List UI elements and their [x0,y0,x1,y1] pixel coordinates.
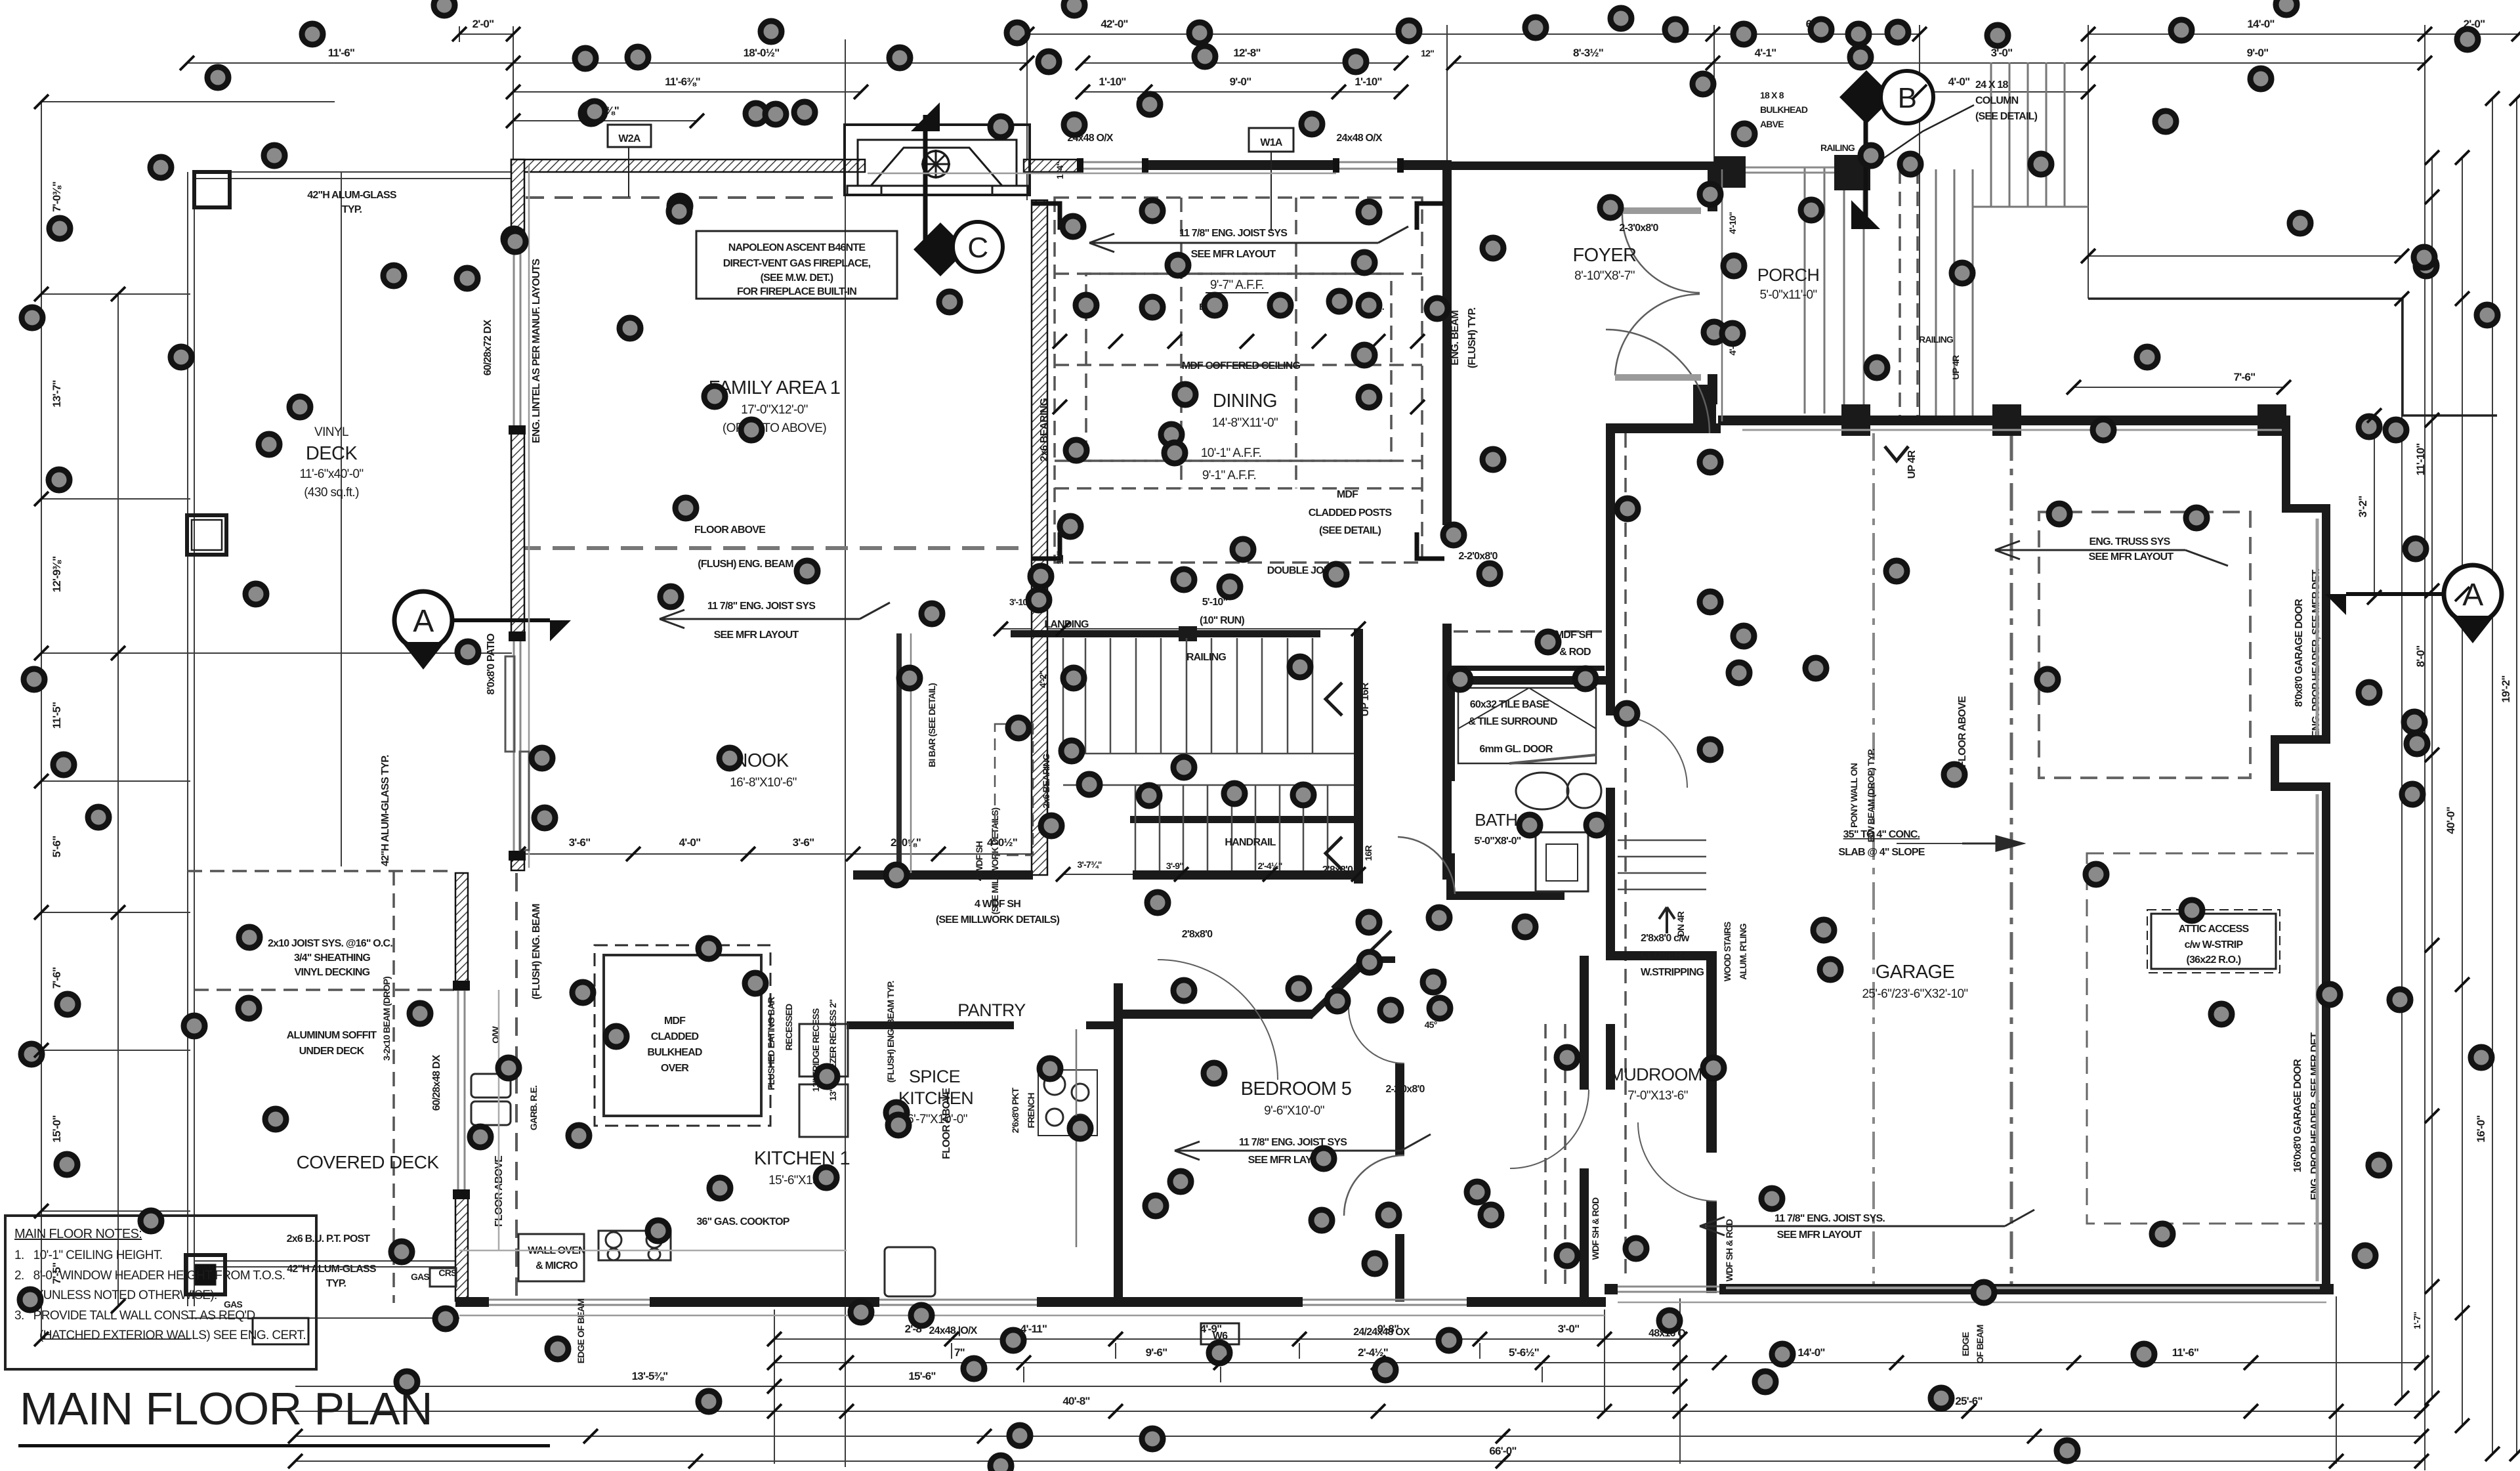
svg-text:(SEE MILLWORK DETAILS): (SEE MILLWORK DETAILS) [936,914,1060,926]
svg-text:2'8x8'0: 2'8x8'0 [1322,864,1353,876]
svg-text:PONY WALL ON: PONY WALL ON [1849,763,1859,828]
svg-text:ENG. BEAM: ENG. BEAM [1450,310,1461,366]
svg-text:3'-6": 3'-6" [569,836,591,849]
svg-text:GARAGE: GARAGE [1876,962,1955,983]
svg-text:CRS: CRS [438,1268,457,1278]
svg-text:7": 7" [954,1346,965,1359]
svg-text:24x48 |O/X: 24x48 |O/X [929,1325,978,1336]
svg-text:42"H ALUM-GLASS TYP.: 42"H ALUM-GLASS TYP. [380,755,391,866]
svg-text:UP 16R: UP 16R [1360,682,1371,716]
svg-text:4'-0": 4'-0" [1948,75,1970,88]
svg-text:5'-0"X8'-0": 5'-0"X8'-0" [1475,836,1521,847]
svg-text:3. PROVIDE TALL WALL CONST.: 3. PROVIDE TALL WALL CONST. AS REQ'D [14,1309,255,1323]
svg-text:5'-0"x11'-0": 5'-0"x11'-0" [1759,288,1816,302]
svg-text:4'-1": 4'-1" [1755,47,1776,59]
svg-text:42"H ALUM-GLASS: 42"H ALUM-GLASS [287,1264,377,1275]
svg-text:16'-8"X10'-6": 16'-8"X10'-6" [730,776,797,790]
svg-text:DIRECT-VENT GAS FIREPLACE,: DIRECT-VENT GAS FIREPLACE, [723,258,871,269]
svg-text:2'-0⅝": 2'-0⅝" [891,836,921,849]
svg-text:40'-0": 40'-0" [2445,807,2457,834]
svg-text:COLUMN: COLUMN [1975,95,2019,106]
svg-text:3'-2": 3'-2" [2357,496,2369,518]
svg-text:12'-8": 12'-8" [1233,47,1260,59]
svg-text:MAIN FLOOR NOTES:: MAIN FLOOR NOTES: [14,1227,142,1241]
svg-text:8'-10"X8'-7": 8'-10"X8'-7" [1574,269,1635,283]
svg-text:(FLUSH) TYP.: (FLUSH) TYP. [1467,307,1478,368]
svg-text:13'-7": 13'-7" [51,380,63,407]
svg-text:40'-8": 40'-8" [1062,1395,1089,1407]
svg-text:SEE MFR LAYOUT: SEE MFR LAYOUT [714,629,799,641]
svg-text:FLOOR ABOVE: FLOOR ABOVE [694,524,766,536]
svg-text:NAPOLEON ASCENT B46NTE: NAPOLEON ASCENT B46NTE [728,242,866,253]
svg-text:HANDRAIL: HANDRAIL [1225,837,1276,848]
svg-text:35" TO 4" CONC.: 35" TO 4" CONC. [1843,829,1920,840]
svg-text:W1A: W1A [1260,137,1282,148]
svg-text:11 7/8" ENG. JOIST SYS: 11 7/8" ENG. JOIST SYS [707,601,816,612]
svg-text:UNDER DECK: UNDER DECK [299,1046,365,1057]
svg-text:11'-6": 11'-6" [328,47,354,59]
svg-text:(FLUSH) ENG. BEAM TYP.: (FLUSH) ENG. BEAM TYP. [885,981,896,1083]
svg-text:GAS: GAS [411,1271,429,1282]
svg-text:ENG. LINTEL AS PER MANUF. LAYO: ENG. LINTEL AS PER MANUF. LAYOUTS [531,259,542,444]
svg-text:14'-0": 14'-0" [2247,18,2274,30]
svg-text:TYP.: TYP. [342,204,362,215]
svg-text:DN 4R: DN 4R [1675,911,1686,937]
svg-text:(430 sq.ft.): (430 sq.ft.) [304,486,359,500]
svg-text:2x6 BEARING: 2x6 BEARING [1041,754,1051,809]
svg-text:ALUM. R'LING: ALUM. R'LING [1738,923,1748,979]
svg-text:EDGE: EDGE [1960,1332,1971,1356]
svg-text:8'-0": 8'-0" [2414,646,2427,668]
svg-text:14'-8"X11'-0": 14'-8"X11'-0" [1212,416,1278,430]
svg-text:E/W BEAM (DROP) TYP.: E/W BEAM (DROP) TYP. [1866,749,1876,842]
svg-text:A: A [413,604,434,639]
svg-text:18'-0½": 18'-0½" [744,47,780,59]
svg-text:2x10 JOIST SYS. @16" O.C.: 2x10 JOIST SYS. @16" O.C. [268,938,392,949]
svg-text:17'-0"X12'-0": 17'-0"X12'-0" [741,403,808,417]
svg-text:FOYER: FOYER [1573,245,1637,266]
svg-text:9'-6"X10'-0": 9'-6"X10'-0" [1264,1104,1324,1118]
svg-text:6mm GL. DOOR: 6mm GL. DOOR [1479,744,1553,755]
svg-text:11'-10": 11'-10" [2414,443,2427,475]
svg-text:SLAB @ 4" SLOPE: SLAB @ 4" SLOPE [1838,847,1925,858]
svg-text:4'-0½": 4'-0½" [987,836,1017,849]
svg-text:ATTIC ACCESS: ATTIC ACCESS [2179,924,2250,935]
svg-text:WDF SH & ROD: WDF SH & ROD [1724,1219,1734,1281]
svg-text:2x6 BEARING: 2x6 BEARING [1039,398,1050,461]
svg-text:6'-7"X10'-0": 6'-7"X10'-0" [907,1113,967,1126]
svg-text:FLOOR ABOVE: FLOOR ABOVE [941,1088,952,1159]
svg-text:PORCH: PORCH [1757,265,1820,285]
svg-text:3/4" SHEATHING: 3/4" SHEATHING [294,952,370,964]
svg-text:9'-7" A.F.F.: 9'-7" A.F.F. [1210,278,1264,292]
svg-text:66'-0": 66'-0" [1489,1445,1516,1457]
svg-text:24 X 18: 24 X 18 [1975,79,2008,91]
svg-text:FLOOR ABOVE: FLOOR ABOVE [1957,696,1968,767]
svg-text:1. 10'-1" CEILING HEIGHT.: 1. 10'-1" CEILING HEIGHT. [14,1248,162,1262]
svg-text:(36x22 R.O.): (36x22 R.O.) [2187,954,2241,966]
svg-text:ABVE: ABVE [1760,119,1784,129]
svg-text:A: A [2462,578,2483,612]
svg-text:FLUSHED EATING BAR: FLUSHED EATING BAR [766,996,776,1090]
svg-text:2'-4½": 2'-4½" [1257,861,1282,871]
svg-text:& TILE SURROUND: & TILE SURROUND [1468,716,1557,727]
svg-text:36" GAS. COOKTOP: 36" GAS. COOKTOP [696,1216,789,1227]
svg-text:RECESSED: RECESSED [784,1004,794,1050]
svg-text:19'-2": 19'-2" [2500,675,2512,702]
svg-text:ALUMINUM SOFFIT: ALUMINUM SOFFIT [287,1030,377,1041]
svg-text:CLADDED POSTS: CLADDED POSTS [1309,507,1393,519]
svg-text:11'-5": 11'-5" [51,702,63,729]
svg-text:(SEE DETAIL): (SEE DETAIL) [1319,525,1381,536]
svg-text:7'-0⅜": 7'-0⅜" [51,182,63,212]
svg-text:RAILING: RAILING [1820,142,1855,153]
svg-text:KITCHEN: KITCHEN [898,1088,973,1108]
svg-text:2-2'0x8'0: 2-2'0x8'0 [1385,1084,1425,1095]
svg-text:C: C [967,232,988,264]
svg-text:8'0x8'0 PATIO: 8'0x8'0 PATIO [486,633,497,694]
svg-text:5'-6": 5'-6" [51,836,63,858]
svg-text:4'-0": 4'-0" [679,836,701,849]
svg-text:9'-0": 9'-0" [1230,75,1251,88]
svg-text:2x6 B.U. P.T. POST: 2x6 B.U. P.T. POST [287,1233,371,1245]
svg-text:SEE MFR LAYOUT: SEE MFR LAYOUT [1191,249,1276,260]
svg-text:3'-7¾": 3'-7¾" [1077,859,1101,870]
svg-text:11'-6"x40'-0": 11'-6"x40'-0" [299,467,363,481]
svg-text:25'-6": 25'-6" [1955,1395,1982,1407]
svg-text:45°: 45° [1425,1019,1437,1030]
svg-text:BULKHEAD: BULKHEAD [647,1047,702,1058]
svg-text:W.STRIPPING: W.STRIPPING [1641,967,1704,978]
svg-text:16'-0": 16'-0" [2475,1115,2487,1142]
svg-text:3'-0": 3'-0" [1991,47,2013,59]
svg-text:11 7/8" ENG. JOIST SYS: 11 7/8" ENG. JOIST SYS [1179,228,1288,239]
svg-text:3'-0": 3'-0" [1558,1323,1580,1335]
svg-text:12": 12" [1055,551,1065,565]
svg-text:& ROD: & ROD [1559,647,1591,658]
svg-text:11'-6⅜": 11'-6⅜" [665,75,700,88]
svg-text:3'-9": 3'-9" [1166,861,1183,871]
svg-text:SEE MFR LAYOUT: SEE MFR LAYOUT [2089,551,2174,563]
svg-text:COVERED DECK: COVERED DECK [297,1152,440,1172]
svg-text:14'-0": 14'-0" [1797,1346,1824,1359]
svg-text:RAILING: RAILING [1186,652,1227,663]
svg-text:9'-8": 9'-8" [1377,1323,1399,1335]
svg-text:2'6x8'0 PKT: 2'6x8'0 PKT [1010,1087,1020,1133]
svg-text:OVER: OVER [661,1063,689,1074]
svg-text:24x48 O/X: 24x48 O/X [1336,133,1382,144]
svg-text:(UNLESS NOTED OTHERWISE).: (UNLESS NOTED OTHERWISE). [39,1289,217,1302]
svg-text:(10" RUN): (10" RUN) [1200,615,1244,626]
svg-text:9'-6": 9'-6" [1146,1346,1167,1359]
svg-text:5'-6½": 5'-6½" [1509,1346,1539,1359]
svg-text:(FLUSH) ENG. BEAM: (FLUSH) ENG. BEAM [531,904,542,1000]
svg-text:CLOSER &: CLOSER & [1641,950,1692,961]
svg-text:4'-9": 4'-9" [1200,1323,1222,1335]
svg-text:16R: 16R [1363,845,1374,861]
svg-text:WOOD STAIRS: WOOD STAIRS [1722,922,1732,981]
svg-text:60/28x48 DX: 60/28x48 DX [431,1055,442,1111]
svg-text:TYP.: TYP. [326,1278,346,1289]
svg-text:1'-4": 1'-4" [1055,162,1065,179]
svg-text:BEDROOM 5: BEDROOM 5 [1241,1078,1352,1099]
svg-text:VINYL: VINYL [314,425,348,439]
svg-text:EDGE OF BEAM: EDGE OF BEAM [576,1299,586,1364]
svg-text:VINYL DECKING: VINYL DECKING [295,967,370,978]
svg-text:ENG. TRUSS SYS: ENG. TRUSS SYS [2089,536,2170,547]
svg-text:7'-0"X13'-6": 7'-0"X13'-6" [1627,1089,1688,1103]
svg-text:7'-6": 7'-6" [2234,371,2256,383]
svg-text:42"H ALUM-GLASS: 42"H ALUM-GLASS [307,190,397,201]
svg-text:4'-10": 4'-10" [1727,212,1738,234]
svg-text:15'-0": 15'-0" [51,1115,63,1142]
svg-text:9'-0": 9'-0" [2247,47,2269,59]
svg-text:SEE MFR LAYOUT: SEE MFR LAYOUT [1777,1229,1862,1241]
svg-text:18 X 8: 18 X 8 [1760,90,1784,100]
svg-text:c/w W-STRIP: c/w W-STRIP [2185,939,2244,950]
svg-text:KITCHEN 1: KITCHEN 1 [754,1148,850,1169]
svg-text:2-3'0x8'0: 2-3'0x8'0 [1619,223,1658,234]
svg-text:2. 8'-0" WINDOW HEADER HEIGH: 2. 8'-0" WINDOW HEADER HEIGHT FROM T.O.S… [14,1269,285,1283]
svg-text:11'-6": 11'-6" [2172,1346,2198,1359]
svg-text:3-2x10 BEAM (DROP): 3-2x10 BEAM (DROP) [381,977,392,1061]
svg-text:7'-6": 7'-6" [51,968,63,989]
svg-text:13'-5⅜": 13'-5⅜" [632,1370,668,1382]
svg-text:MUDROOM: MUDROOM [1609,1065,1702,1084]
svg-text:2'-0": 2'-0" [472,18,494,30]
svg-text:4 WDF SH: 4 WDF SH [974,841,984,881]
svg-text:SPICE: SPICE [909,1067,960,1086]
svg-text:11 7/8" ENG. JOIST SYS.: 11 7/8" ENG. JOIST SYS. [1774,1213,1885,1224]
svg-text:12": 12" [1421,48,1434,58]
svg-text:MDF: MDF [664,1015,686,1027]
svg-text:OF BEAM: OF BEAM [1975,1325,1985,1363]
svg-text:PANTRY: PANTRY [957,1000,1026,1020]
svg-text:WDF SH & ROD: WDF SH & ROD [1590,1197,1601,1260]
svg-text:FOR FIREPLACE BUILT-IN: FOR FIREPLACE BUILT-IN [737,286,856,297]
svg-text:BULKHEAD: BULKHEAD [1760,104,1808,115]
svg-text:(HATCHED EXTERIOR WALLS) SEE E: (HATCHED EXTERIOR WALLS) SEE ENG. CERT. [39,1329,306,1342]
svg-text:1'-7": 1'-7" [2412,1312,2422,1329]
svg-text:1'-10": 1'-10" [1099,75,1125,88]
svg-text:15'-6": 15'-6" [908,1370,935,1382]
svg-text:MAIN FLOOR PLAN: MAIN FLOOR PLAN [20,1383,432,1434]
svg-text:GAS: GAS [224,1299,242,1310]
svg-text:(SEE DETAIL): (SEE DETAIL) [1975,111,2038,122]
svg-text:8'-3½": 8'-3½" [1573,47,1603,59]
svg-text:42'-0": 42'-0" [1101,18,1127,30]
svg-text:UP 4R: UP 4R [1950,355,1961,380]
svg-text:(FLUSH) ENG. BEAM: (FLUSH) ENG. BEAM [698,559,793,570]
svg-text:UP 4R: UP 4R [1906,450,1918,479]
svg-text:4'-2": 4'-2" [1038,671,1048,688]
svg-text:& MICRO: & MICRO [535,1260,577,1271]
svg-text:DECK: DECK [306,443,358,464]
svg-text:9'-1" A.F.F.: 9'-1" A.F.F. [1202,469,1256,482]
svg-text:12'-9⅜": 12'-9⅜" [51,557,63,593]
svg-text:1'-10": 1'-10" [1354,75,1381,88]
svg-text:FRENCH: FRENCH [1026,1093,1036,1128]
svg-text:(SEE M.W. DET.): (SEE M.W. DET.) [761,272,833,284]
svg-text:W2A: W2A [618,133,640,144]
svg-text:BI BAR (SEE DETAIL): BI BAR (SEE DETAIL) [927,683,937,767]
svg-text:3'-6": 3'-6" [793,836,814,849]
svg-text:MDF COFFERED CEILING: MDF COFFERED CEILING [1182,360,1301,372]
svg-text:10'-1" A.F.F.: 10'-1" A.F.F. [1201,446,1261,460]
svg-text:CLADDED: CLADDED [651,1031,699,1042]
svg-text:MDF: MDF [1337,489,1358,500]
svg-text:2'8x8'0: 2'8x8'0 [1182,929,1213,940]
svg-text:FAMILY AREA 1: FAMILY AREA 1 [709,377,841,398]
svg-text:2-2'0x8'0: 2-2'0x8'0 [1458,551,1498,562]
svg-text:DINING: DINING [1213,391,1277,412]
svg-text:60x32 TILE BASE: 60x32 TILE BASE [1470,699,1550,710]
svg-text:25'-6"/23'-6"X32'-10": 25'-6"/23'-6"X32'-10" [1862,987,1967,1001]
svg-text:16'0x8'0 GARAGE DOOR: 16'0x8'0 GARAGE DOOR [2292,1059,2303,1172]
svg-text:RAILING: RAILING [1919,334,1954,345]
svg-text:60/28x72 DX: 60/28x72 DX [482,320,493,376]
svg-text:GARB. R.E.: GARB. R.E. [528,1086,539,1130]
svg-text:8'0x8'0 GARAGE DOOR: 8'0x8'0 GARAGE DOOR [2294,599,2305,707]
svg-text:11 7/8" ENG. JOIST SYS: 11 7/8" ENG. JOIST SYS [1239,1137,1347,1148]
